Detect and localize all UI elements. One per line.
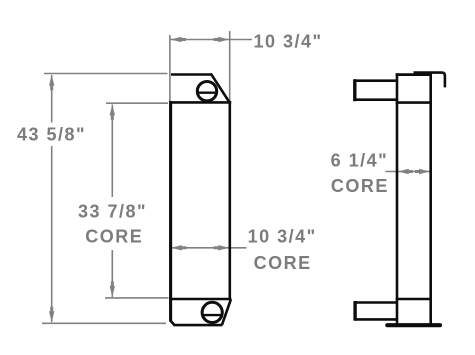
svg-text:43 5/8": 43 5/8" — [17, 125, 86, 145]
svg-text:CORE: CORE — [331, 176, 389, 196]
svg-text:10 3/4": 10 3/4" — [254, 32, 323, 52]
svg-text:10 3/4": 10 3/4" — [248, 227, 317, 247]
svg-text:CORE: CORE — [85, 227, 143, 247]
svg-text:33 7/8": 33 7/8" — [78, 202, 147, 222]
svg-text:CORE: CORE — [254, 253, 312, 273]
svg-text:6 1/4": 6 1/4" — [331, 151, 389, 171]
